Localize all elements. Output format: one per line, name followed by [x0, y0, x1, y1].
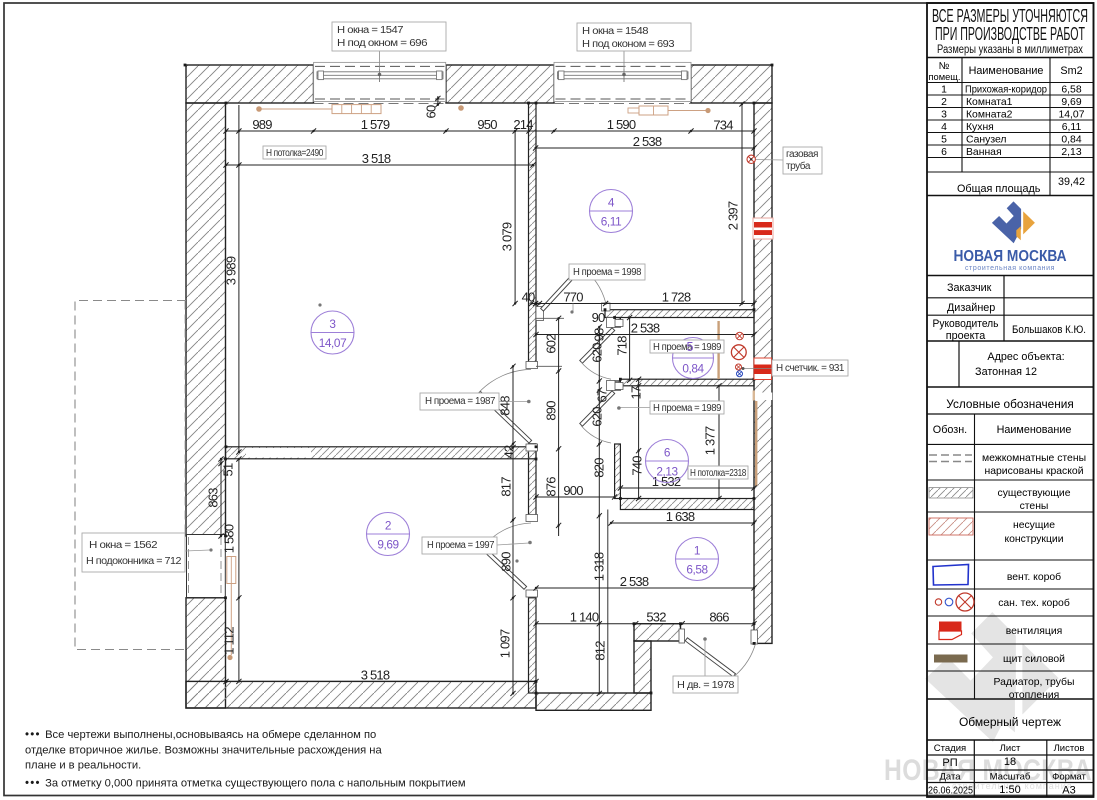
svg-text:Н под оконом = 693: Н под оконом = 693 [582, 39, 675, 50]
door entrance arc [735, 642, 756, 676]
dimension line wc-height [629, 318, 631, 381]
svg-text:Масштаб: Масштаб [990, 772, 1031, 783]
svg-text:Адрес объекта:: Адрес объекта: [987, 351, 1064, 363]
door room2 arc [483, 523, 532, 548]
svg-text:№: № [939, 61, 950, 72]
svg-text:890: 890 [543, 401, 558, 421]
svg-text:Наименование: Наименование [969, 65, 1044, 77]
wall left lower [186, 598, 226, 708]
wall wc-left stub3 [615, 444, 621, 499]
svg-text:2: 2 [385, 519, 391, 533]
svg-text:Условные обозначения: Условные обозначения [946, 397, 1073, 411]
svg-text:Н счетчик. = 931: Н счетчик. = 931 [776, 363, 845, 374]
svg-text:60: 60 [423, 105, 438, 118]
san-tech small crossed circle [736, 332, 744, 340]
svg-text:Н проема = 1998: Н проема = 1998 [573, 267, 642, 278]
label room2 opening [422, 537, 497, 554]
svg-text:214: 214 [513, 117, 533, 132]
label kitchen opening [569, 264, 645, 280]
svg-text:Комната2: Комната2 [966, 110, 1013, 121]
svg-text:39,42: 39,42 [1058, 176, 1085, 188]
svg-text:Дата: Дата [939, 772, 961, 783]
svg-text:Размеры указаны в миллиметрах: Размеры указаны в миллиметрах [937, 44, 1083, 56]
svg-text:90: 90 [592, 310, 605, 325]
door kitchen frames [536, 307, 544, 321]
svg-text:3 989: 3 989 [223, 256, 238, 285]
svg-text:1 097: 1 097 [497, 629, 512, 658]
svg-text:770: 770 [563, 290, 583, 305]
wall divider painted gap [246, 448, 311, 458]
svg-text:4: 4 [941, 122, 947, 133]
wall bath bottom [620, 499, 754, 510]
svg-text:734: 734 [713, 118, 733, 133]
SYMBOLS [731, 155, 773, 379]
svg-text:14,07: 14,07 [1058, 110, 1084, 121]
svg-text:3 518: 3 518 [362, 151, 391, 166]
wall wc-left stub2 [615, 381, 621, 390]
legend painted walls [929, 455, 972, 462]
svg-text:Руководитель: Руководитель [933, 318, 999, 330]
window W1 leader [379, 51, 381, 74]
svg-text:стены: стены [1020, 501, 1049, 512]
gas pipe symbol [747, 155, 755, 163]
legend existing walls [929, 488, 973, 499]
legend table [927, 414, 1094, 699]
room circle 3 [311, 311, 354, 354]
vent duct kitchen right wall [753, 218, 773, 239]
wall wc-left stub1 [615, 318, 621, 328]
svg-text:••• За отметку 0,000 принята: ••• За отметку 0,000 принята отметка сущ… [25, 778, 466, 790]
dimension line wc-width [536, 334, 754, 336]
legend san-tech [935, 599, 941, 605]
svg-text:А3: А3 [1062, 785, 1075, 797]
legend bearing walls [929, 518, 973, 535]
svg-text:1 638: 1 638 [666, 509, 695, 524]
room circle 2 [367, 513, 410, 556]
room circle 1 [676, 538, 719, 581]
svg-text:989: 989 [252, 117, 272, 132]
svg-text:602: 602 [543, 334, 558, 354]
svg-text:98: 98 [591, 328, 606, 341]
svg-text:Н дв. = 1978: Н дв. = 1978 [677, 680, 735, 691]
wall top-mid segment [446, 65, 554, 103]
legend vent duct [933, 565, 969, 586]
svg-text:вент. короб: вент. короб [1007, 571, 1061, 583]
dimension line room3-height [238, 105, 240, 452]
svg-text:НОВАЯ МОСКВА: НОВАЯ МОСКВА [954, 248, 1067, 265]
svg-text:1 579: 1 579 [361, 117, 390, 132]
svg-text:1 580: 1 580 [221, 524, 236, 553]
wall top-right segment [691, 65, 772, 103]
svg-text:проекта: проекта [946, 330, 986, 342]
svg-text:существующие: существующие [998, 488, 1071, 499]
window W2 top [554, 62, 691, 101]
label meter [772, 360, 848, 376]
svg-text:Радиатор, трубы: Радиатор, трубы [994, 676, 1075, 688]
window W2 leader [623, 51, 625, 74]
dimension line room2-right-heights [512, 366, 514, 693]
svg-text:718: 718 [614, 336, 629, 356]
svg-text:щит силовой: щит силовой [1003, 654, 1065, 665]
stamp table [927, 740, 1094, 797]
svg-text:876: 876 [543, 477, 558, 497]
svg-text:Н под окном = 696: Н под окном = 696 [337, 38, 428, 49]
svg-text:Общая площадь: Общая площадь [957, 183, 1041, 195]
label gas pipe [783, 147, 822, 174]
svg-text:Н окна = 1548: Н окна = 1548 [582, 26, 649, 37]
door room3 leaf [478, 391, 532, 443]
dimension line room3-width [226, 164, 533, 166]
dimension line kitchen-height [741, 104, 743, 304]
label entrance door [673, 676, 738, 693]
dashed loggia outline [75, 301, 186, 650]
svg-text:4: 4 [608, 196, 615, 210]
dashed inner wall line across window2 [554, 103, 691, 105]
svg-text:Н потолка=2490: Н потолка=2490 [266, 148, 324, 159]
svg-text:Обозн.: Обозн. [933, 424, 967, 436]
wall entrance step side [634, 641, 651, 693]
dimension line bath-height2 [718, 386, 720, 499]
svg-text:1:50: 1:50 [999, 784, 1020, 796]
svg-text:532: 532 [646, 610, 666, 625]
dimension line hall-width2 [536, 587, 754, 589]
WALLS [186, 65, 772, 710]
wall corridor-left lower [529, 598, 537, 693]
watermark logo text [884, 754, 1092, 791]
svg-text:РП: РП [942, 757, 957, 769]
legend ventilation [939, 622, 962, 632]
svg-text:Н окна = 1562: Н окна = 1562 [89, 540, 158, 551]
svg-text:••• Все чертежи выполнены,осн: ••• Все чертежи выполнены,основываясь на… [25, 729, 376, 741]
dimension line left-51-863 [220, 459, 222, 536]
svg-text:14,07: 14,07 [319, 336, 347, 350]
radiator window W2 [639, 106, 668, 115]
label window2 heights [577, 23, 691, 51]
svg-text:Лист: Лист [1000, 743, 1021, 754]
svg-text:40: 40 [522, 290, 535, 305]
legend power board [934, 655, 968, 663]
svg-text:Ванная: Ванная [966, 147, 1002, 158]
svg-text:900: 900 [563, 483, 583, 498]
radiator left window [227, 557, 236, 584]
svg-text:620: 620 [589, 343, 604, 363]
wall top-left segment [186, 65, 314, 103]
svg-text:1 140: 1 140 [570, 610, 599, 625]
svg-text:газовая: газовая [786, 149, 818, 160]
svg-text:3 518: 3 518 [361, 668, 390, 683]
door kitchen leaf [541, 266, 583, 311]
vent duct wc right wall [754, 358, 772, 380]
label bath opening [650, 401, 724, 414]
rooms table [927, 58, 1094, 196]
wall corridor-left mid [529, 444, 537, 520]
svg-text:Sm2: Sm2 [1060, 65, 1082, 77]
leader lines [756, 159, 783, 162]
wall left upper [186, 103, 226, 536]
svg-text:ПРИ ПРОИЗВОДСТВЕ РАБОТ: ПРИ ПРОИЗВОДСТВЕ РАБОТ [935, 23, 1085, 44]
door bath arc [581, 426, 611, 444]
DOORS [478, 266, 758, 677]
wall kitchen bottom [605, 310, 754, 318]
dimension texts vertical [205, 201, 740, 660]
svg-text:сан. тех. короб: сан. тех. короб [998, 597, 1070, 609]
svg-text:2,13: 2,13 [656, 465, 678, 479]
watermark diamond [925, 612, 1058, 742]
svg-text:0,84: 0,84 [1061, 135, 1081, 146]
svg-text:890: 890 [498, 552, 513, 572]
door room2 leaf [481, 546, 527, 589]
svg-text:848: 848 [497, 396, 512, 416]
svg-text:51: 51 [220, 463, 235, 476]
dimension line left-window [238, 459, 240, 681]
svg-text:6,11: 6,11 [601, 215, 622, 229]
svg-text:1 377: 1 377 [702, 426, 717, 455]
door bath leaf [580, 391, 615, 426]
svg-text:817: 817 [498, 477, 513, 497]
label room3 ceiling [263, 146, 326, 159]
svg-text:Н проема = 1989: Н проема = 1989 [653, 403, 722, 414]
svg-text:2 538: 2 538 [631, 321, 660, 336]
wall room3-room2 divider [226, 447, 537, 459]
people table [927, 276, 1094, 415]
door kitchen arc [582, 267, 606, 302]
dimension line entrance-widths [536, 623, 754, 625]
san-tech big crossed circle [731, 345, 746, 360]
label left window heights [82, 533, 185, 572]
svg-text:3: 3 [329, 317, 336, 331]
label bath ceiling [688, 466, 748, 479]
svg-text:конструкции: конструкции [1004, 534, 1063, 545]
svg-text:42: 42 [501, 445, 516, 458]
svg-text:Н проема = 1987: Н проема = 1987 [425, 396, 496, 407]
svg-text:1: 1 [941, 85, 947, 96]
svg-text:Н подоконника = 712: Н подоконника = 712 [86, 556, 182, 567]
svg-text:Формат: Формат [1052, 772, 1086, 783]
svg-text:6: 6 [941, 147, 947, 158]
BOXES [82, 22, 848, 693]
svg-text:1 728: 1 728 [662, 290, 691, 305]
dimension line room2-width [226, 681, 536, 683]
svg-text:2 538: 2 538 [633, 134, 662, 149]
svg-text:820: 820 [591, 458, 606, 478]
wall bottom room2 [186, 681, 536, 708]
svg-text:1: 1 [694, 544, 700, 558]
door entrance leaf [685, 638, 735, 677]
svg-text:3 079: 3 079 [499, 222, 514, 251]
painted wall wc [717, 321, 719, 379]
svg-text:17: 17 [628, 386, 643, 399]
svg-text:труба: труба [786, 160, 811, 172]
wall bottom corridor [536, 693, 651, 710]
dimension line hall-width [611, 522, 754, 524]
san-tech small circles [736, 364, 742, 370]
svg-text:Обмерный чертеж: Обмерный чертеж [959, 715, 1061, 729]
svg-text:1 590: 1 590 [607, 117, 636, 132]
dimension line corridor-heights [558, 318, 560, 536]
wall corridor-left upper [529, 103, 537, 366]
svg-text:Дизайнер: Дизайнер [947, 302, 995, 314]
right wall gap [753, 393, 772, 401]
svg-text:6,11: 6,11 [1062, 122, 1082, 133]
svg-text:строительная компания: строительная компания [965, 265, 1055, 272]
room circle 5 [673, 338, 714, 379]
svg-text:2,13: 2,13 [1061, 147, 1081, 158]
svg-text:2 538: 2 538 [620, 574, 649, 589]
svg-text:Н потолка=2318: Н потолка=2318 [690, 468, 747, 479]
svg-text:620: 620 [589, 407, 604, 427]
door wc frames [613, 320, 624, 327]
wall entrance step top [634, 624, 681, 641]
svg-text:Наименование: Наименование [997, 424, 1072, 436]
label wc opening [650, 340, 724, 353]
door wc leaf [580, 328, 615, 363]
window W1 top [314, 62, 446, 101]
svg-text:6: 6 [664, 446, 671, 460]
label room3 opening [420, 393, 499, 410]
tick line corridor top [536, 317, 564, 319]
door room3 arc [479, 369, 531, 392]
svg-text:Н окна = 1547: Н окна = 1547 [337, 25, 404, 36]
svg-text:отделке вторичное жилье. Возмо: отделке вторичное жилье. Возможны значит… [25, 745, 382, 757]
wall right [754, 103, 772, 643]
door bath frames [613, 383, 624, 390]
svg-text:1 112: 1 112 [221, 627, 236, 655]
svg-text:26.06.2025: 26.06.2025 [928, 786, 973, 797]
dimension line corridor-width [536, 496, 615, 498]
dimension line doors-column [598, 327, 600, 693]
wall wc-bath divider [620, 379, 754, 386]
door room2 frames [526, 515, 538, 522]
logo [954, 201, 1067, 272]
svg-text:67: 67 [594, 389, 609, 402]
svg-text:9,69: 9,69 [377, 538, 398, 552]
svg-text:5: 5 [687, 340, 694, 354]
svg-text:3: 3 [941, 110, 947, 121]
room circle 6 [646, 440, 689, 483]
painted wall bath [755, 401, 757, 486]
svg-text:Листов: Листов [1054, 743, 1085, 754]
CIRCLES [311, 190, 719, 581]
dimension line bath-width [620, 487, 754, 489]
svg-text:0,84: 0,84 [682, 362, 704, 376]
dimension line top-widths [226, 130, 754, 132]
svg-text:950: 950 [477, 117, 497, 132]
svg-text:5: 5 [941, 135, 947, 146]
svg-text:отопления: отопления [1009, 690, 1060, 701]
svg-text:Затонная 12: Затонная 12 [975, 366, 1037, 378]
svg-text:Прихожая-коридор: Прихожая-коридор [965, 85, 1047, 96]
label window1 heights [332, 22, 446, 51]
dimension line kitchen-width [536, 147, 754, 149]
svg-text:2: 2 [941, 97, 947, 108]
title block frame [927, 3, 1094, 797]
dimension line kitchen-door [532, 303, 755, 305]
svg-text:863: 863 [205, 488, 220, 508]
svg-text:Кухня: Кухня [966, 122, 994, 133]
svg-text:плане и в реальности.: плане и в реальности. [25, 760, 141, 772]
room circle 4 [590, 190, 633, 233]
dashed inner wall line across window1 [314, 103, 447, 105]
radiator window W1 [332, 105, 381, 114]
svg-text:866: 866 [709, 610, 729, 625]
svg-text:1 318: 1 318 [591, 552, 606, 581]
svg-text:Комната1: Комната1 [966, 97, 1013, 108]
svg-text:помещ.: помещ. [929, 72, 961, 82]
svg-text:нарисованы краской: нарисованы краской [984, 466, 1083, 477]
svg-text:несущие: несущие [1013, 520, 1055, 531]
svg-text:6,58: 6,58 [1061, 85, 1081, 96]
svg-text:2 397: 2 397 [725, 201, 740, 230]
tick line door3 top [536, 365, 562, 367]
svg-text:9,69: 9,69 [1061, 97, 1081, 108]
door room3 frames [526, 362, 538, 369]
dimension line room3-right-height [514, 131, 516, 304]
door entrance frames [679, 629, 685, 643]
svg-text:Н проема = 1997: Н проема = 1997 [427, 540, 495, 551]
svg-text:6,58: 6,58 [686, 563, 708, 577]
WINDOWS [187, 51, 757, 660]
svg-text:вентиляция: вентиляция [1006, 626, 1063, 637]
svg-text:Стадия: Стадия [934, 743, 966, 754]
dimension line win1-60 [437, 96, 439, 106]
NOTES [25, 729, 466, 790]
dimension texts horizontal [252, 117, 733, 683]
door wc arc [581, 362, 611, 379]
line hall-corridor boundary [607, 510, 609, 694]
svg-text:Заказчик: Заказчик [947, 282, 992, 294]
svg-text:межкомнатные стены: межкомнатные стены [982, 453, 1086, 464]
svg-text:Санузел: Санузел [966, 135, 1006, 146]
window W3 left [187, 535, 226, 598]
svg-text:812: 812 [592, 641, 607, 661]
svg-text:Большаков К.Ю.: Большаков К.Ю. [1012, 324, 1086, 336]
svg-text:740: 740 [629, 456, 644, 476]
svg-text:18: 18 [1004, 756, 1016, 768]
dimension line bath-height [638, 379, 640, 498]
